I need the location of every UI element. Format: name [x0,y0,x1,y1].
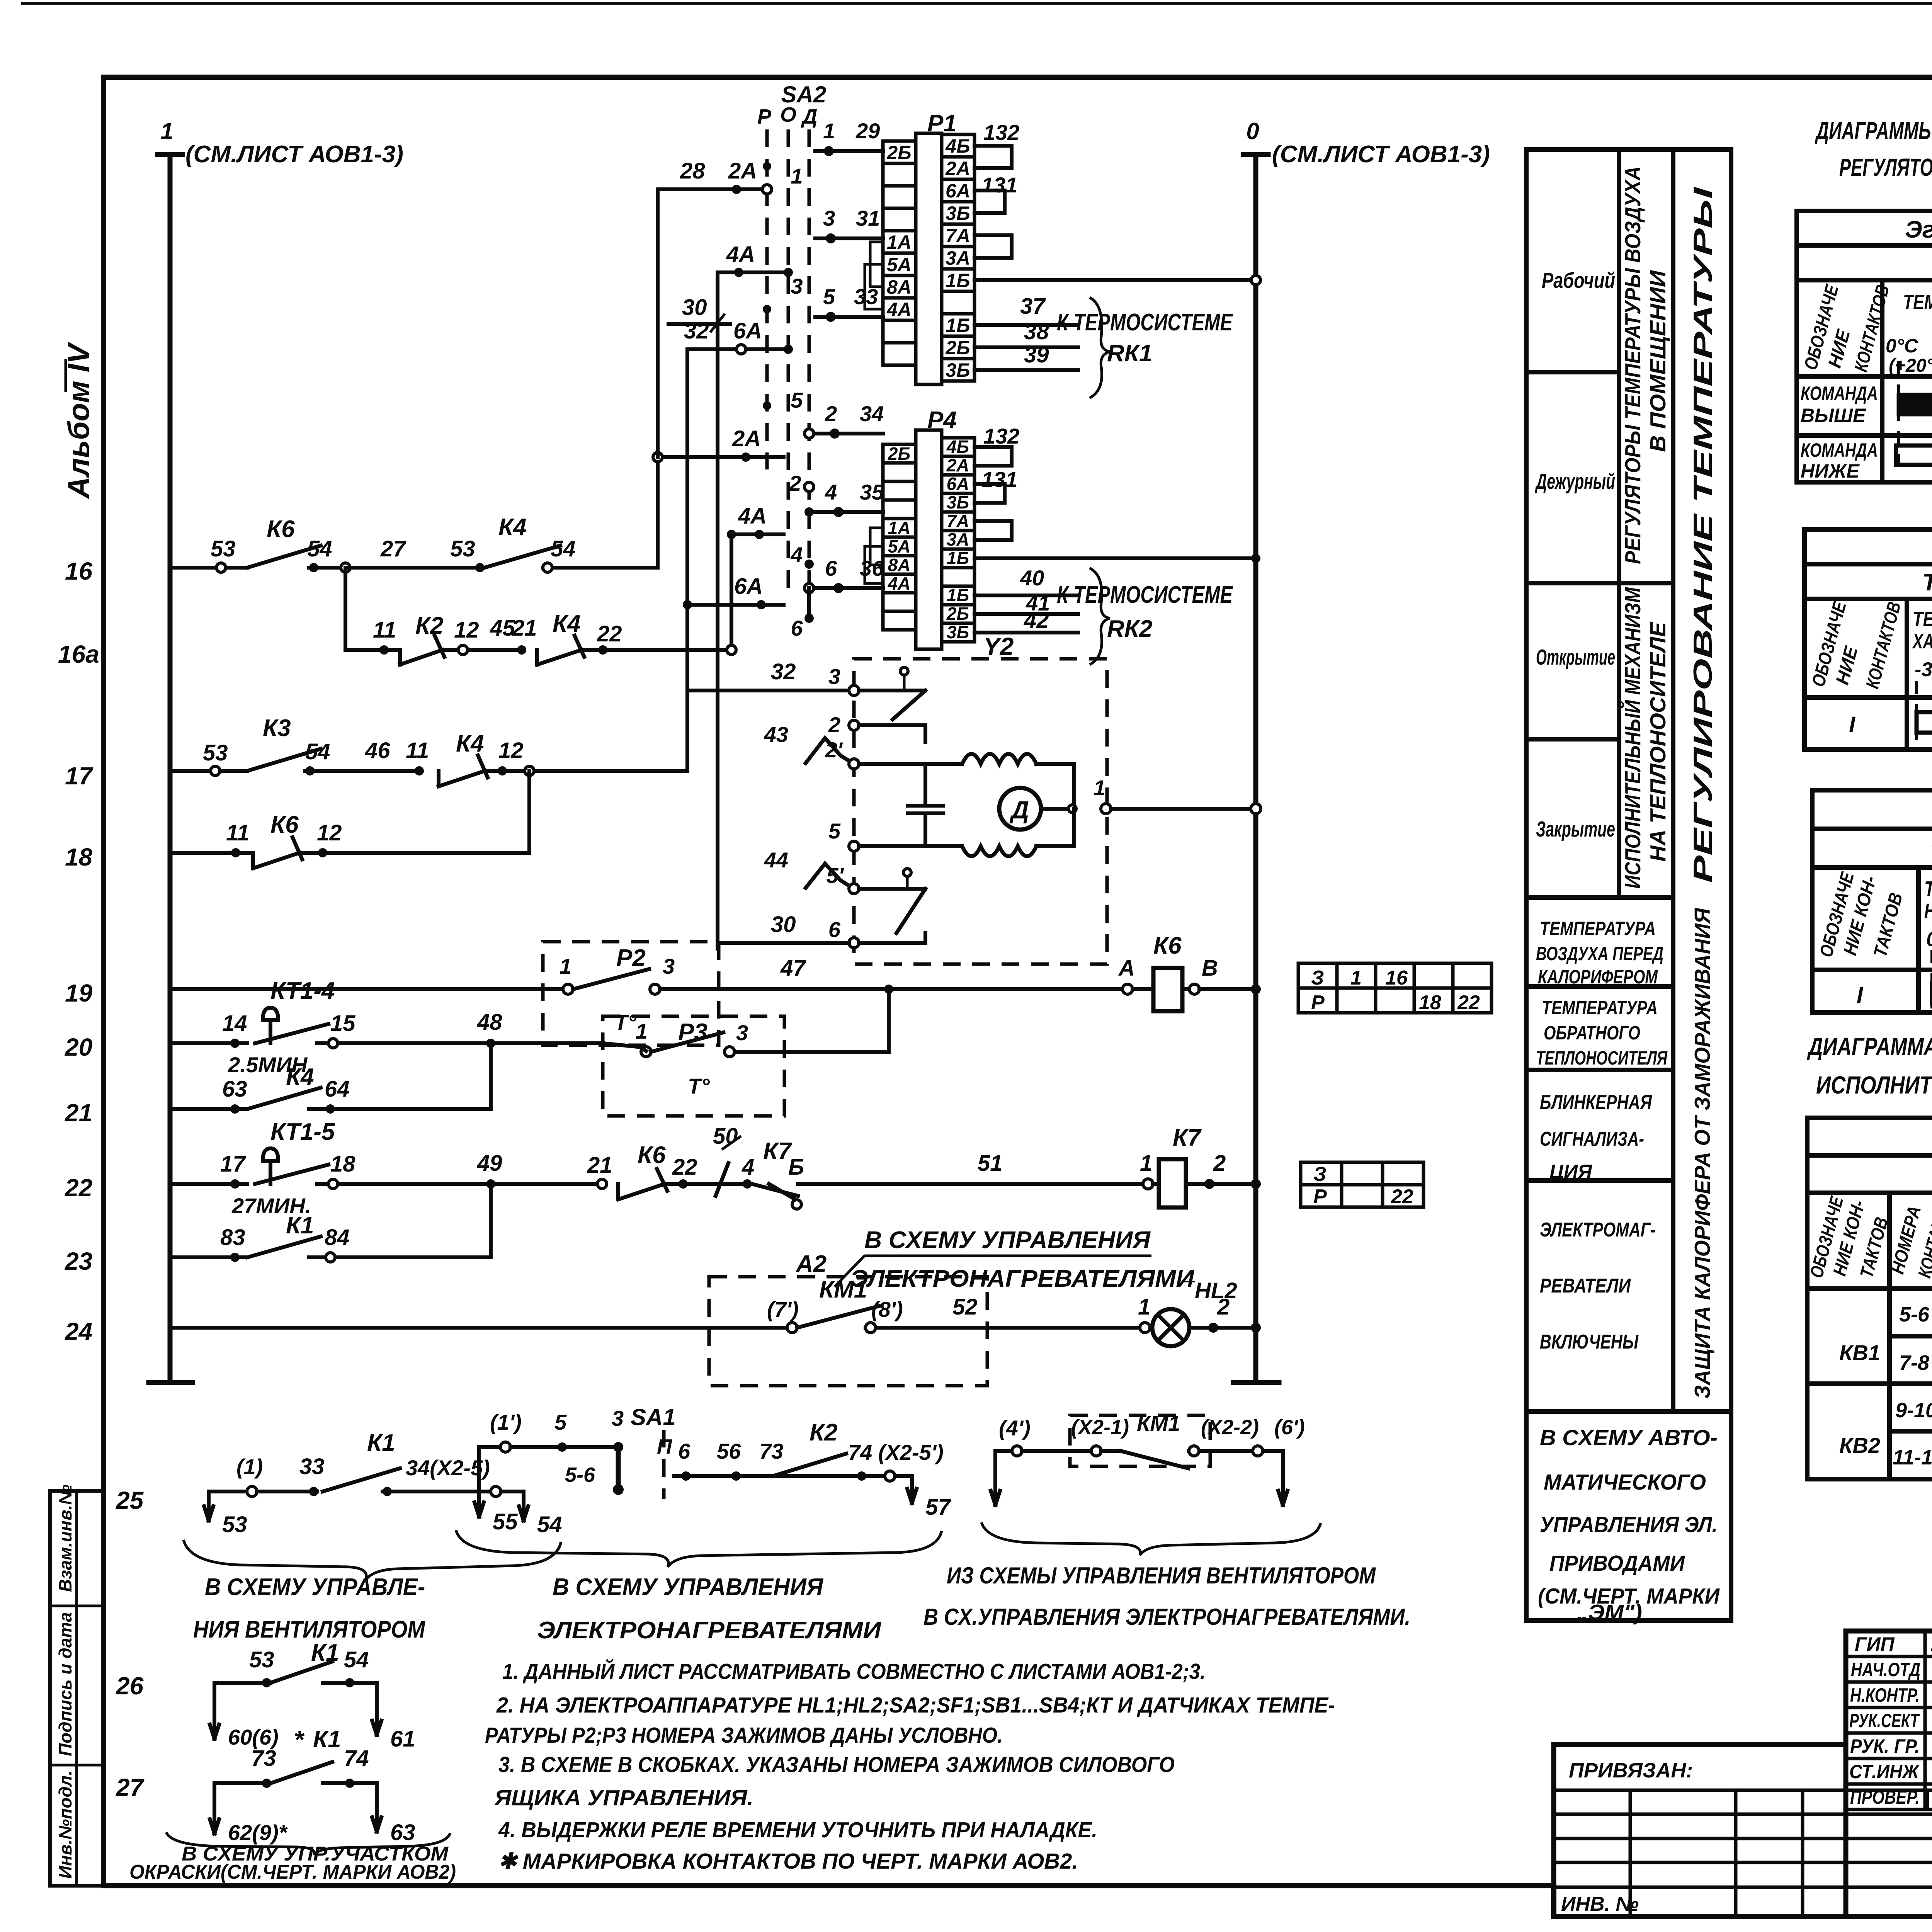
svg-text:ТУДЭ-2: ТУДЭ-2 [1930,838,1932,865]
svg-text:7А: 7А [946,225,970,247]
svg-text:53: 53 [450,536,475,561]
svg-text:14: 14 [222,1011,247,1036]
svg-text:2Б: 2Б [945,337,970,359]
svg-text:16: 16 [1385,967,1408,989]
table TE2P3 [1797,211,1932,482]
wire 32/6A y=904 [687,347,784,351]
svg-text:18: 18 [65,843,93,871]
svg-text:3А: 3А [947,529,969,549]
svg-text:К6: К6 [270,811,299,838]
svg-text:36: 36 [860,556,884,580]
svg-text:RК2: RК2 [1107,616,1152,642]
svg-text:56: 56 [717,1439,741,1463]
svg-text:1: 1 [560,954,571,978]
wire 30 to terminal 6 [718,941,849,945]
svg-text:(8'): (8') [871,1297,903,1321]
svg-text:РЕГУЛИРОВАНИЕ ТЕМПЕРАТУРЫ: РЕГУЛИРОВАНИЕ ТЕМПЕРАТУРЫ [1688,186,1718,883]
svg-text:К1: К1 [367,1430,395,1456]
svg-text:Закрытие: Закрытие [1536,817,1615,842]
svg-text:1: 1 [1138,1294,1150,1320]
svg-text:ТЕМПЕРАТУРА: ТЕМПЕРАТУРА [1540,918,1656,939]
svg-text:МАТИЧЕСКОГО: МАТИЧЕСКОГО [1544,1470,1706,1495]
1B long wire to bus 0 [975,278,1256,282]
svg-text:33: 33 [299,1454,325,1479]
svg-text:53: 53 [203,740,228,765]
svg-text:(Х2-1): (Х2-1) [1071,1416,1129,1439]
svg-text:73: 73 [759,1439,783,1463]
svg-text:4А: 4А [726,242,755,267]
svg-text:4Б: 4Б [946,437,969,457]
svg-text:1Б: 1Б [946,270,970,291]
svg-text:ЗАЩИТА КАЛОРИФЕРА ОТ ЗАМОРАЖИВ: ЗАЩИТА КАЛОРИФЕРА ОТ ЗАМОРАЖИВАНИЯ [1690,908,1715,1399]
svg-text:21: 21 [65,1099,92,1127]
svg-text:Д: Д [1009,796,1029,824]
svg-text:38: 38 [1024,319,1049,344]
svg-text:РЕВАТЕЛИ: РЕВАТЕЛИ [1540,1275,1631,1297]
svg-text:22: 22 [65,1174,92,1202]
svg-text:50: 50 [713,1124,738,1149]
svg-text:48: 48 [477,1010,502,1035]
svg-text:5': 5' [827,863,844,888]
svg-text:К6: К6 [267,516,295,543]
svg-text:26: 26 [116,1672,144,1700]
left jumper brackets P4 [870,528,883,565]
wires 37 38 39 [975,323,1078,327]
svg-text:27: 27 [380,536,406,561]
svg-text:Т°: Т° [688,1074,710,1098]
svg-text:5: 5 [828,819,841,843]
svg-text:3. В СХЕМЕ В СКОБКАХ. УКАЗА: 3. В СХЕМЕ В СКОБКАХ. УКАЗАНЫ НОМЕРА ЗАЖ… [498,1752,1175,1777]
terminal 5 [849,841,859,851]
A2 dashed box [709,1277,987,1386]
svg-text:2: 2 [1217,1294,1230,1320]
terminal 2 [849,720,859,730]
wire 28/2A y=490 [658,187,762,191]
svg-text:4А: 4А [738,503,767,529]
svg-text:2Б: 2Б [886,142,911,163]
frame bottom right extension [1554,1631,1932,1917]
svg-text:16: 16 [65,557,93,585]
terminal 6 [849,938,859,948]
KM1 bottom piece [993,1451,997,1505]
svg-text:БЛИНКЕРНАЯ: БЛИНКЕРНАЯ [1540,1091,1652,1114]
svg-text:18: 18 [1419,992,1441,1014]
svg-text:З: З [1313,1163,1326,1185]
svg-text:НИЯ ВЕНТИЛЯТОРОМ: НИЯ ВЕНТИЛЯТОРОМ [193,1616,425,1643]
svg-text:47: 47 [780,956,806,981]
svg-text:-30°С: -30°С [1915,658,1932,681]
svg-text:8А: 8А [887,276,912,298]
svg-text:1: 1 [636,1019,648,1043]
left margin strip [50,1484,104,1886]
contact K4 row16 [485,546,560,568]
svg-text:SА1: SА1 [631,1404,676,1430]
svg-text:3: 3 [791,274,803,298]
svg-text:В СХЕМУ УПРАВЛЕНИЯ: В СХЕМУ УПРАВЛЕНИЯ [553,1574,824,1600]
svg-text:44: 44 [764,848,788,872]
svg-text:1А: 1А [887,231,912,253]
svg-text:I: I [1849,712,1856,737]
row 19 [170,987,562,991]
bus 1 [168,155,173,1383]
svg-text:83: 83 [220,1225,245,1250]
svg-text:4А: 4А [886,299,912,320]
svg-text:3: 3 [663,954,675,978]
svg-text:✱ МАРКИРОВКА КОНТАКТОВ ПО Ч: ✱ МАРКИРОВКА КОНТАКТОВ ПО ЧЕРТ. МАРКИ АО… [498,1849,1078,1874]
svg-text:З: З [1311,967,1324,989]
svg-text:53: 53 [211,536,236,561]
K6 NC contact row22 [616,1184,620,1199]
svg-text:37: 37 [1020,294,1046,319]
svg-text:49: 49 [477,1151,502,1176]
K7 changeover contact [752,1184,798,1196]
30 wire mark [668,322,730,326]
svg-text:5-6: 5-6 [1899,1303,1930,1326]
svg-text:К ТЕРМОСИСТЕМЕ: К ТЕРМОСИСТЕМЕ [1057,309,1233,336]
svg-text:15: 15 [330,1011,355,1036]
svg-text:К4: К4 [286,1064,314,1090]
row 25 circuit [207,1492,211,1520]
svg-text:ЦИЯ: ЦИЯ [1549,1161,1592,1183]
svg-text:63: 63 [390,1820,415,1845]
svg-text:2: 2 [828,713,840,737]
svg-text:КВ1: КВ1 [1839,1340,1880,1365]
svg-text:5: 5 [554,1410,567,1434]
svg-text:А2: А2 [795,1251,827,1277]
svg-text:5: 5 [823,284,835,309]
svg-text:22: 22 [1457,992,1480,1014]
svg-text:УПРАВЛЕНИЯ ЭЛ.: УПРАВЛЕНИЯ ЭЛ. [1540,1512,1718,1537]
svg-text:Р: Р [757,105,772,128]
capacitor [923,764,927,806]
svg-text:11: 11 [373,617,396,643]
svg-text:ИСПОЛНИТЕЛЬНЫЙ МЕХАНИЗМ: ИСПОЛНИТЕЛЬНЫЙ МЕХАНИЗМ [1620,587,1645,889]
svg-text:24: 24 [65,1318,92,1345]
svg-text:4: 4 [790,543,803,567]
svg-text:Р: Р [1311,992,1325,1014]
svg-text:30: 30 [771,912,796,937]
terminal 3 [849,685,859,696]
svg-text:45: 45 [490,616,515,641]
svg-text:6: 6 [678,1439,690,1463]
svg-text:54: 54 [344,1647,369,1672]
svg-text:(СМ.ЛИСТ АОВ1-3): (СМ.ЛИСТ АОВ1-3) [185,141,403,168]
svg-text:53: 53 [249,1647,274,1672]
svg-text:НИЖЕ: НИЖЕ [1801,460,1860,482]
svg-text:Дежурный: Дежурный [1535,469,1615,494]
svg-text:ЭЛЕКТРОНАГРЕВАТЕЛЯМИ: ЭЛЕКТРОНАГРЕВАТЕЛЯМИ [850,1265,1194,1292]
album label [61,342,95,499]
svg-text:7А: 7А [947,511,969,531]
svg-text:3: 3 [823,206,835,230]
1B long wire P4 to bus 0 [975,556,1256,560]
svg-text:0°С: 0°С [1926,928,1932,951]
svg-text:17: 17 [220,1151,246,1177]
svg-text:17: 17 [65,762,94,790]
table R3 TUDE-2 [1812,790,1932,1012]
table Y1 MEO [1807,1118,1932,1479]
row 21 [170,1107,247,1111]
svg-text:22: 22 [597,621,622,646]
svg-text:ДИАГРАММА РАБОТЫ КОНТАКТОВ: ДИАГРАММА РАБОТЫ КОНТАКТОВ [1807,1032,1932,1060]
svg-text:ЭЛЕКТРОМАГ-: ЭЛЕКТРОМАГ- [1540,1219,1656,1241]
svg-text:6А: 6А [733,318,762,344]
svg-text:51: 51 [978,1151,1003,1176]
svg-text:ИЗ СХЕМЫ УПРАВЛЕНИЯ ВЕНТИЛЯТОР: ИЗ СХЕМЫ УПРАВЛЕНИЯ ВЕНТИЛЯТОРОМ [947,1563,1376,1588]
svg-text:1: 1 [791,164,803,188]
svg-text:63: 63 [222,1077,247,1102]
terminal 5' [849,884,859,894]
svg-text:НА ТЕПЛОНОСИТЕЛЕ: НА ТЕПЛОНОСИТЕЛЕ [1646,621,1670,862]
svg-text:ХА ПЕРЕД КАЛОРИФЕРОМ: ХА ПЕРЕД КАЛОРИФЕРОМ [1912,630,1932,653]
svg-text:54: 54 [307,536,332,561]
dashed line P [765,129,769,469]
svg-text:Подпись и дата: Подпись и дата [55,1612,75,1756]
svg-text:ТЕМПЕРАТУРА: ТЕМПЕРАТУРА [1542,997,1658,1019]
svg-text:39: 39 [1024,342,1049,367]
svg-text:(4'): (4') [999,1416,1031,1440]
svg-text:ТЕМПЕРАТУРА ВОЗДУХА: ТЕМПЕРАТУРА ВОЗДУХА [1903,291,1932,314]
svg-text:Н.КОНТР.: Н.КОНТР. [1850,1684,1920,1706]
svg-text:21: 21 [587,1153,612,1178]
row 23 [170,1255,247,1259]
svg-text:12: 12 [498,738,524,763]
svg-text:Б: Б [788,1155,804,1180]
scan top edge line [21,2,1932,5]
svg-text:РУК.СЕКТ: РУК.СЕКТ [1849,1710,1920,1731]
svg-text:3: 3 [736,1020,748,1045]
svg-text:ИСПОЛНИТЕЛЬНОГО МЕХА: ИСПОЛНИТЕЛЬНОГО МЕХА [1816,1071,1932,1099]
svg-text:3Б: 3Б [947,492,969,512]
wire 2A y=1183 [658,455,784,459]
right contacts to P1 [815,149,883,153]
svg-text:КВ2: КВ2 [1839,1433,1880,1458]
svg-text:12: 12 [317,820,342,845]
svg-text:6: 6 [825,556,837,580]
svg-text:5А: 5А [887,254,912,276]
svg-text:5: 5 [791,388,803,412]
P3 dashed box [603,1016,784,1116]
svg-text:11: 11 [226,820,249,845]
svg-text:3: 3 [828,664,840,689]
svg-text:3: 3 [612,1406,624,1430]
svg-text:2: 2 [1213,1151,1226,1176]
svg-text:57: 57 [925,1495,951,1520]
svg-text:3Б: 3Б [947,622,969,642]
svg-text:КТ1-5: КТ1-5 [270,1119,335,1145]
svg-text:4: 4 [742,1155,754,1180]
dashed line O [787,129,790,591]
svg-text:6А: 6А [734,574,763,599]
svg-text:4: 4 [825,480,837,504]
contact K6 row16 [247,546,321,568]
svg-text:Р2: Р2 [616,945,646,971]
svg-text:К7: К7 [1173,1124,1202,1151]
svg-text:0: 0 [1246,118,1259,144]
svg-text:Д: Д [801,105,818,128]
svg-text:6: 6 [791,616,803,640]
small table row22 [1301,1162,1423,1207]
svg-text:НАЧ.ОТД: НАЧ.ОТД [1851,1659,1920,1680]
svg-text:1А: 1А [888,518,911,538]
svg-text:2Б: 2Б [946,604,969,624]
svg-text:132: 132 [983,120,1019,145]
Y2 dashed box [854,659,1107,964]
svg-text:ТЕМПЕРАТУРА ОБРАТ-: ТЕМПЕРАТУРА ОБРАТ- [1924,877,1932,900]
svg-text:20: 20 [65,1033,92,1061]
svg-text:СИГНАЛИЗА-: СИГНАЛИЗА- [1540,1128,1644,1150]
svg-text:53: 53 [222,1512,247,1537]
svg-text:52: 52 [952,1294,978,1320]
svg-text:К ТЕРМОСИСТЕМЕ: К ТЕРМОСИСТЕМЕ [1057,582,1233,608]
svg-text:12: 12 [454,617,479,643]
right jumpers P4 [975,447,1012,466]
svg-text:НОГО ТЕПЛОНОСИТЕЛЯ: НОГО ТЕПЛОНОСИТЕЛЯ [1924,900,1932,923]
svg-text:1Б: 1Б [947,548,969,568]
row 27 circuit [213,1783,216,1833]
svg-text:Открытие: Открытие [1536,645,1615,670]
svg-text:(1'): (1') [490,1410,522,1434]
svg-text:54: 54 [305,739,330,764]
svg-text:„ЭМ"): „ЭМ") [1576,1600,1642,1625]
svg-text:21: 21 [512,616,537,641]
row 16 up link to 28/2A [656,189,660,568]
svg-text:131: 131 [981,467,1017,492]
svg-text:К1: К1 [313,1726,341,1753]
row 24 [170,1326,787,1330]
svg-text:11: 11 [406,738,429,763]
svg-text:Рабочий: Рабочий [1542,268,1615,293]
svg-text:5-6: 5-6 [565,1463,595,1486]
svg-text:4. ВЫДЕРЖКИ РЕЛЕ ВРЕМЕНИ У: 4. ВЫДЕРЖКИ РЕЛЕ ВРЕМЕНИ УТОЧНИТЬ ПРИ НА… [498,1818,1097,1842]
svg-text:А: А [1118,956,1135,981]
svg-text:К3: К3 [263,715,291,742]
svg-text:2А: 2А [728,158,757,184]
svg-text:31: 31 [856,206,880,230]
svg-text:46: 46 [365,738,390,763]
svg-text:1: 1 [823,119,835,143]
svg-text:1: 1 [1350,967,1362,989]
svg-text:132: 132 [983,424,1019,448]
svg-text:ТЕМПЕРАТУРА ВОЗДУ-: ТЕМПЕРАТУРА ВОЗДУ- [1913,607,1932,631]
svg-text:В СХЕМУ АВТО-: В СХЕМУ АВТО- [1540,1425,1718,1450]
row 20 [170,1041,247,1045]
svg-text:1: 1 [1140,1151,1152,1176]
svg-text:К6: К6 [1153,932,1182,959]
svg-text:30: 30 [682,295,707,320]
switch blade 3-2 [893,690,925,719]
svg-text:1Б: 1Б [946,315,970,336]
svg-text:ОБРАТНОГО: ОБРАТНОГО [1544,1022,1640,1044]
svg-text:I: I [1857,983,1864,1008]
svg-text:ПРИВЯЗАН:: ПРИВЯЗАН: [1569,1759,1693,1782]
svg-text:КОМАНДА: КОМАНДА [1801,383,1878,404]
right contacts to P4 [804,429,814,438]
P2 dashed box [543,942,719,1045]
svg-text:3Б: 3Б [946,202,970,224]
svg-text:К4: К4 [498,514,527,541]
K2 NC contact [398,650,402,665]
svg-text:ВЫШЕ: ВЫШЕ [1801,405,1866,426]
svg-text:К1: К1 [311,1639,339,1666]
svg-text:3А: 3А [946,247,970,269]
HL2 lamp [1140,1323,1150,1333]
svg-text:25: 25 [116,1486,144,1514]
svg-text:62(9)*: 62(9)* [228,1820,288,1845]
svg-text:32: 32 [684,318,709,344]
svg-text:К1: К1 [286,1212,314,1239]
wires 40 41 42 [975,594,1078,597]
svg-text:4Б: 4Б [945,135,970,157]
svg-text:(1): (1) [236,1454,263,1479]
svg-text:ОКРАСКИ(СМ.ЧЕРТ. МАРКИ АОВ2): ОКРАСКИ(СМ.ЧЕРТ. МАРКИ АОВ2) [129,1861,456,1883]
svg-text:131: 131 [981,173,1017,197]
svg-text:2А: 2А [945,158,970,179]
svg-text:РЕГУЛЯТОРОВ ТЕМПЕРАТУРЫ: РЕГУЛЯТОРОВ ТЕМПЕРАТУРЫ [1839,153,1932,181]
svg-text:28: 28 [680,158,705,184]
svg-text:Инв.№подл.: Инв.№подл. [55,1770,75,1879]
svg-text:6А: 6А [947,474,969,494]
svg-text:О: О [780,103,796,126]
K7 coil [1159,1159,1186,1207]
svg-text:Взам.инв.№: Взам.инв.№ [55,1484,75,1592]
svg-text:16а: 16а [58,640,99,668]
svg-text:54: 54 [537,1512,562,1537]
row 16a [344,568,347,650]
svg-text:КОМАНДА: КОМАНДА [1801,439,1878,461]
svg-text:ПРИВОДАМИ: ПРИВОДАМИ [1549,1551,1685,1576]
svg-text:2А: 2А [946,455,969,475]
svg-text:СТ.ИНЖ: СТ.ИНЖ [1849,1761,1920,1782]
svg-text:ДИАГРАММЫ РАБОТЫ КОНТАКТОВ: ДИАГРАММЫ РАБОТЫ КОНТАКТОВ [1815,117,1932,145]
dashed line D [808,129,811,618]
svg-text:ЯЩИКА УПРАВЛЕНИЯ.: ЯЩИКА УПРАВЛЕНИЯ. [494,1786,753,1810]
vertical x=1857 [716,272,719,949]
svg-text:ВКЛЮЧЕНЫ: ВКЛЮЧЕНЫ [1540,1331,1639,1353]
svg-text:0°С: 0°С [1886,335,1918,357]
left jumper brackets P1 [870,242,883,287]
svg-text:54: 54 [551,536,576,561]
svg-text:35: 35 [860,480,884,504]
row 16 wire [170,566,216,570]
svg-text:84: 84 [325,1225,350,1250]
svg-text:В СХ.УПРАВЛЕНИЯ ЭЛЕКТРОНАГРЕВА: В СХ.УПРАВЛЕНИЯ ЭЛЕКТРОНАГРЕВАТЕЛЯМИ. [923,1604,1410,1630]
ground bar bus 0 [1233,1380,1279,1385]
svg-text:1. ДАННЫЙ ЛИСТ РАССМАТРИВАТ: 1. ДАННЫЙ ЛИСТ РАССМАТРИВАТЬ СОВМЕСТНО С… [502,1658,1206,1684]
svg-text:К4: К4 [553,611,581,637]
motor circle [999,788,1041,830]
svg-text:74 (Х2-5'): 74 (Х2-5') [848,1440,944,1464]
svg-text:ИНВ. №: ИНВ. № [1561,1893,1639,1915]
svg-text:К2: К2 [810,1419,838,1446]
row17-row18 vertical [527,771,531,853]
svg-text:2': 2' [825,738,843,762]
svg-text:КАЛОРИФЕРОМ: КАЛОРИФЕРОМ [1538,966,1658,988]
svg-text:3Б: 3Б [946,359,970,381]
svg-text:43: 43 [764,722,788,747]
wire 4A y=705 [718,270,784,274]
svg-text:Р: Р [1313,1185,1327,1208]
svg-text:22: 22 [1391,1185,1413,1208]
svg-text:(7'): (7') [767,1297,799,1321]
svg-text:32: 32 [771,659,796,684]
svg-text:40: 40 [1020,566,1044,590]
bus 0 [1253,155,1259,1383]
svg-text:ГИП: ГИП [1855,1633,1895,1655]
svg-text:ТЕПЛОНОСИТЕЛЯ: ТЕПЛОНОСИТЕЛЯ [1536,1047,1668,1069]
svg-text:ВОЗДУХА ПЕРЕД: ВОЗДУХА ПЕРЕД [1536,943,1663,964]
svg-text:Y2: Y2 [983,633,1014,660]
